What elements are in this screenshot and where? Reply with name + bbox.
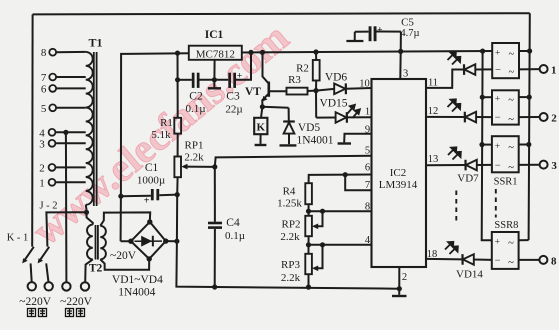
VT base bar (267, 82, 270, 97)
wire junction to T2 primary top (87, 212, 93, 224)
svg-text:RP3: RP3 (281, 259, 300, 271)
node VT emitter junction (260, 104, 265, 109)
transformer T2 primary winding (87, 225, 93, 260)
label 输入 (input) (66, 309, 85, 317)
solid-state relay SSR box 2 (492, 90, 519, 125)
wire pin 3 to rail (399, 51, 401, 79)
svg-text:22µ: 22µ (225, 104, 242, 116)
wire T2 secondary top to bridge AC top (100, 212, 150, 225)
wire C3 right to +12V rail (236, 52, 251, 79)
svg-text:6: 6 (365, 163, 370, 174)
svg-text:2.2k: 2.2k (280, 231, 300, 243)
ground stub under K (260, 134, 262, 144)
terminal output 8 (539, 256, 547, 264)
svg-text:~: ~ (508, 142, 514, 153)
wire mains input to tap 4 (vertical column) (65, 132, 68, 282)
svg-text:+: + (495, 49, 500, 59)
wire SSR3 ~ bottom to output 3 (519, 164, 540, 166)
LED row 2 light arrows (448, 99, 461, 111)
svg-text:K - 1: K - 1 (7, 233, 29, 244)
wire SSR3 ~ top to right rail (519, 144, 529, 146)
node SSR2 + (480, 95, 485, 100)
label 输出 (output) (28, 309, 47, 317)
svg-text:R2: R2 (296, 63, 309, 75)
node IC1 input / R1 top (175, 51, 180, 56)
terminal ~220V output 1 (28, 282, 36, 290)
node pin5 / C4 / RP1 wiper (212, 164, 217, 169)
svg-text:1N4004: 1N4004 (118, 287, 155, 299)
node R2 top (313, 49, 318, 54)
svg-text:MC7812: MC7812 (196, 48, 235, 60)
diode VD5 1N4001 (262, 107, 288, 108)
svg-text:VD15: VD15 (319, 98, 347, 110)
wire tap 7 (56, 76, 86, 78)
solid-state relay SSR box 8 (492, 232, 519, 269)
wire tap 5 (56, 107, 86, 109)
svg-text:2: 2 (39, 163, 45, 175)
wire T1 bottom to junction (85, 205, 88, 213)
svg-text:0.1µ: 0.1µ (185, 103, 205, 115)
node VT collector (260, 50, 265, 55)
svg-text:−: − (495, 65, 501, 76)
terminal ~220V input 2 (81, 282, 89, 290)
node bridge - / ground column (174, 239, 179, 244)
switch K-1 pole 1 blade (24, 247, 34, 261)
wire tap 3 (55, 142, 85, 144)
svg-text:1: 1 (551, 65, 557, 77)
solid-state relay SSR box 1 (492, 43, 519, 78)
svg-text:2: 2 (551, 113, 557, 125)
svg-text:~: ~ (508, 238, 514, 249)
wire SSR1 ~ top to right rail (519, 50, 530, 52)
svg-text:3: 3 (551, 160, 557, 172)
node bridge bottom (147, 256, 152, 261)
watermark www.elecfans.com (23, 14, 297, 254)
wire tap 6 (56, 87, 86, 89)
dashed continuation right (495, 189, 497, 218)
svg-text:VD6: VD6 (325, 72, 348, 84)
svg-text:+: + (495, 142, 500, 152)
wire IC1 gnd lead (213, 60, 215, 80)
svg-text:SSR8: SSR8 (494, 220, 518, 231)
LED row 2 diode (464, 112, 466, 123)
RP2 wiper (315, 211, 323, 226)
relay coil K (261, 107, 262, 118)
node IC1 ground / C2 C3 junction (212, 77, 217, 82)
svg-text:−: − (495, 160, 501, 171)
svg-text:+: + (495, 237, 500, 247)
svg-text:8: 8 (551, 255, 557, 267)
svg-text:1N4001: 1N4001 (296, 135, 333, 147)
wire tap 1 (55, 181, 85, 183)
wire pin 5 to RP1 wiper node (215, 156, 372, 167)
junction tap4 / mains input (63, 130, 68, 135)
terminal ~220V input 1 (62, 282, 70, 290)
LED VD14 light arrows (445, 242, 458, 254)
svg-text:1000µ: 1000µ (137, 175, 165, 187)
node C4 on ground rail (212, 284, 217, 289)
wire pin 6 to R4 top (309, 175, 372, 184)
svg-text:+: + (144, 196, 150, 207)
svg-text:10: 10 (359, 79, 370, 90)
svg-text:~220V: ~220V (60, 296, 92, 308)
regulator IC1 MC7812 (189, 46, 242, 60)
outer frame right wire (SSR common rail) (529, 13, 530, 240)
op-amp U1: IC2 LM3914 (372, 79, 427, 267)
svg-text:4.7µ: 4.7µ (400, 28, 419, 39)
svg-text:2: 2 (402, 272, 407, 283)
svg-text:~: ~ (508, 257, 514, 268)
wire pin 2 to ground (398, 267, 400, 289)
svg-text:LM3914: LM3914 (379, 179, 418, 191)
node SSR + feed (480, 49, 485, 54)
node T1 bottom / T2 primary / K-1 pole 2 (84, 210, 89, 215)
VT collector wire (263, 52, 269, 83)
terminal output 2 (540, 113, 548, 121)
svg-text:1: 1 (365, 107, 370, 118)
wire pin 18 to LED VD14 (426, 258, 463, 261)
RP3 wiper (315, 245, 323, 268)
node RP2 wiper on pin8 row (320, 209, 325, 214)
wire unregulated + column (bridge to IC1 input) (121, 53, 189, 241)
svg-text:1.25k: 1.25k (277, 198, 302, 210)
wire SSR2 ~ top to right rail (519, 96, 529, 98)
wire tap 2 (55, 166, 85, 168)
node SSR3 + (479, 142, 484, 147)
svg-text:K: K (257, 122, 266, 134)
wire pin 4 row (309, 244, 372, 246)
wire pin 12 to LED row 2 (426, 116, 465, 118)
svg-text:VT: VT (245, 86, 261, 98)
svg-text:12: 12 (428, 106, 439, 117)
svg-text:T1: T1 (88, 36, 102, 50)
wire VD6 to pin 10 (346, 87, 372, 90)
dashed continuation left (455, 191, 457, 222)
svg-text:R3: R3 (288, 74, 301, 86)
node C3 top (248, 50, 253, 55)
svg-text:~20V: ~20V (110, 250, 137, 262)
wire T2 primary bottom to 220V input terminal (85, 259, 93, 282)
svg-text:VD7: VD7 (457, 173, 479, 185)
svg-text:C2: C2 (189, 91, 203, 103)
svg-text:RP2: RP2 (282, 219, 301, 231)
node pin6/pin7 branch (343, 172, 348, 177)
wire SSR2 + stub (482, 96, 492, 98)
svg-text:~: ~ (508, 95, 514, 106)
svg-text:IC1: IC1 (205, 29, 224, 41)
svg-text:6: 6 (41, 84, 47, 96)
node bridge left (+) (128, 239, 133, 244)
wire T2 secondary bottom to bridge AC bottom (100, 259, 149, 270)
svg-text:~: ~ (508, 115, 514, 126)
node pin3/C5 (398, 49, 403, 54)
wire SSR8 ~ top to right rail corner (519, 239, 529, 241)
svg-text:~: ~ (509, 67, 515, 78)
wire SSR3 + stub (482, 144, 492, 146)
svg-text:~220V: ~220V (19, 296, 51, 308)
RP1 wiper to pin5 node (185, 166, 215, 168)
svg-text:VD14: VD14 (456, 269, 483, 281)
wire pin 13 to LED VD7 (426, 164, 466, 166)
wire tap 8 (56, 51, 86, 53)
svg-text:R4: R4 (283, 186, 296, 198)
svg-text:RP1: RP1 (185, 140, 204, 152)
svg-text:C5: C5 (401, 17, 414, 29)
terminal ~220V output 2 (45, 282, 53, 290)
svg-text:5: 5 (41, 103, 47, 115)
svg-text:11: 11 (428, 78, 438, 89)
node RP2/RP3 (306, 242, 311, 247)
svg-text:3: 3 (39, 139, 45, 151)
LED row 1 diode (463, 64, 465, 75)
node RP3 wiper on pin4 row (320, 242, 325, 247)
wire SSR1 ~ bottom to output 1 (519, 68, 539, 70)
transformer T1 core (93, 52, 95, 206)
wire C5 to pin3 column (377, 31, 401, 33)
pin 9 stub wire (344, 134, 371, 143)
ground symbol pin 2 (398, 289, 400, 295)
solid-state relay SSR box 3 (492, 136, 519, 173)
svg-text:5.1k: 5.1k (151, 129, 171, 141)
transformer T2 secondary winding (100, 226, 106, 260)
wire pin 7 branch (345, 175, 371, 191)
outer frame top wire (33, 13, 530, 14)
svg-text:7: 7 (41, 72, 47, 84)
bridge rectifier VD1~VD4 (131, 222, 166, 259)
node bridge top (147, 219, 152, 224)
svg-text:0.1µ: 0.1µ (225, 230, 245, 242)
svg-text:IC2: IC2 (390, 167, 407, 179)
ground stub under IC1 (213, 80, 215, 88)
node C1 + (118, 194, 123, 199)
node C1 - on ground column (175, 192, 180, 197)
wire pin 11 to LED row 1 (426, 70, 464, 88)
terminal output 1 (540, 65, 548, 73)
terminal output 3 (540, 161, 548, 169)
node R2/R3/VD6/VD15 (313, 88, 318, 93)
svg-text:C1: C1 (145, 162, 159, 174)
svg-text:VD5: VD5 (298, 122, 321, 134)
wire junction to K-1 pole 2 (46, 212, 86, 246)
svg-text:8: 8 (41, 47, 47, 59)
transformer T2 core (95, 225, 97, 260)
svg-text:~: ~ (509, 49, 515, 60)
wire SSR2 ~ bottom to output 2 (519, 116, 540, 118)
svg-text:2.2k: 2.2k (281, 272, 301, 284)
wire bridge - to ground column (166, 240, 177, 242)
wire pin 8 row (309, 210, 372, 212)
LED row 1 light arrows (448, 52, 461, 64)
svg-text:1: 1 (39, 178, 45, 190)
svg-text:3: 3 (403, 69, 408, 80)
outer frame left wire (to K-1) (31, 14, 33, 246)
svg-text:2.2k: 2.2k (184, 152, 204, 164)
wire ground column (RP1 bottom to bottom rail) (176, 177, 401, 289)
LED VD7 light arrows (448, 147, 461, 159)
wire +12V rail (IC1 output to SSR feed) (242, 51, 492, 53)
svg-text:−: − (495, 113, 501, 124)
node R4/RP2 (306, 209, 311, 214)
wire bridge + to unregulated column (121, 240, 131, 242)
svg-text:R1: R1 (160, 117, 173, 129)
node C2 left on unreg column (175, 77, 180, 82)
bridge inner diode symbol (135, 240, 163, 242)
svg-text:C3: C3 (226, 91, 240, 103)
wire SSR + feed column (482, 51, 492, 240)
svg-text:SSR1: SSR1 (494, 177, 518, 188)
svg-text:C4: C4 (226, 217, 240, 229)
node RP3 bottom on ground rail (306, 285, 311, 290)
wire tap 4 (55, 131, 85, 133)
VT emitter wire with arrow (262, 94, 269, 107)
switch K-1 pole 1 lower terminal (31, 263, 32, 282)
node bridge right (-) (163, 238, 168, 243)
svg-text:~: ~ (508, 162, 514, 173)
svg-text:J - 2: J - 2 (39, 201, 57, 212)
svg-text:+: + (495, 95, 500, 105)
transformer T1 winding (86, 52, 93, 205)
switch K-1 pole 2 lower terminal (46, 263, 48, 282)
svg-text:T2: T2 (89, 263, 103, 275)
switch K-1 pole 2 blade (39, 247, 49, 261)
VD15 light arrows (348, 105, 360, 118)
svg-text:−: − (495, 255, 501, 266)
node pin 2 ground (397, 286, 402, 291)
svg-text:VD1~VD4: VD1~VD4 (112, 274, 163, 286)
svg-text:13: 13 (428, 154, 439, 165)
wire SSR8 ~ bottom to output 8 (519, 259, 540, 261)
